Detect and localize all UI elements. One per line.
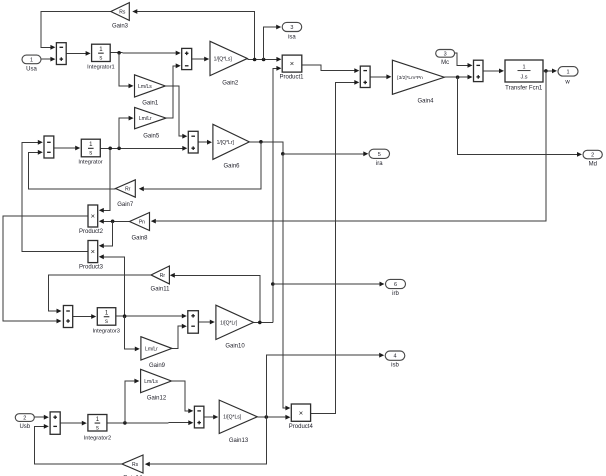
wire Sum1 to Integrator1: [66, 52, 88, 54]
gain Gain2 1/[Q*Ls]: [210, 41, 247, 75]
svg-text:×: ×: [91, 247, 95, 256]
svg-text:Pn: Pn: [139, 219, 145, 225]
wire Product4 output up to Sum5 plus: [311, 82, 357, 413]
wire Gain2 output feedback up to Gain3: [135, 12, 255, 60]
wire Sum4 to Gain6: [198, 141, 209, 143]
node Gain8 output junction: [111, 220, 115, 224]
svg-text:Usb: Usb: [19, 424, 30, 430]
outport 1 w: [558, 67, 578, 77]
wire Gain3 output to Sum1 minus: [41, 12, 111, 48]
svg-text:Product1: Product1: [279, 75, 304, 81]
wire Gain6 output to ira elbow: [249, 142, 282, 154]
svg-text:1/[Q*Lr]: 1/[Q*Lr]: [220, 320, 238, 326]
wire Gain10 output right then up (irb): [254, 321, 273, 323]
svg-text:Lm/Ls: Lm/Ls: [144, 379, 158, 385]
wire Md branch down to outport 2: [458, 77, 579, 154]
sum S5: [360, 66, 370, 87]
outport 5 ira: [369, 149, 390, 158]
wire Integrator3 riser up to Product3 input 2: [102, 257, 125, 317]
wire Gain9 output up to Sum8 minus: [172, 326, 184, 348]
svg-text:irb: irb: [392, 291, 399, 297]
wire ira down to Product4 input 1: [283, 154, 288, 408]
sum S6: [474, 60, 484, 81]
svg-text:Product2: Product2: [79, 229, 104, 235]
svg-text:Gain9: Gain9: [149, 363, 166, 369]
wire Integrator3 to Sum8 plus: [116, 315, 184, 317]
wire junction down to Product2 input 1: [102, 148, 111, 210]
svg-text:Gain13: Gain13: [229, 438, 249, 444]
gain Gain3 Rs: [111, 3, 130, 21]
gain Gain10 1/[Q*Lr]: [216, 305, 254, 339]
svg-text:isb: isb: [391, 363, 399, 369]
gain Gain12 Lm/Ls: [141, 369, 172, 392]
wire Product3 output to Sum3 upper minus: [22, 142, 88, 251]
svg-text:s: s: [99, 55, 102, 61]
wire Gain4 output to Sum6 plus: [444, 76, 469, 78]
svg-text:Integrator1: Integrator1: [87, 65, 115, 71]
svg-text:ira: ira: [376, 161, 383, 167]
svg-text:isa: isa: [288, 35, 296, 41]
svg-text:J.s: J.s: [520, 75, 527, 81]
svg-text:3: 3: [290, 25, 293, 31]
gain Gain4 [3/2]*Lm*Pn: [392, 60, 444, 94]
product Product1: [282, 55, 302, 72]
wire branch up to isa outport: [264, 27, 278, 60]
gain Gain9 Lm/Lr: [141, 337, 172, 360]
sum S3: [44, 136, 54, 158]
svg-text:Lm/Lr: Lm/Lr: [145, 346, 158, 352]
sum S7: [63, 306, 72, 328]
wire Sum10 to Gain13: [204, 416, 216, 418]
svg-text:Mc: Mc: [441, 60, 449, 66]
svg-text:w: w: [564, 80, 570, 86]
integrator Integrator2: [88, 415, 107, 432]
svg-text:Gain2: Gain2: [222, 81, 239, 87]
gain Gain13 1/[Q*Ls]: [219, 400, 257, 433]
sum S10: [194, 406, 204, 428]
wire w feedback down and left to Gain8: [154, 71, 546, 221]
wire Gain8 branch down to Product3 input 1: [102, 221, 113, 246]
gain Gain7 Rr: [116, 180, 136, 197]
wire Usa to Sum1: [41, 58, 52, 60]
wire Gain13 output to Product4 input 2: [257, 416, 287, 418]
node w output junction: [544, 69, 548, 73]
node junction to Gain3 feedback: [253, 58, 257, 62]
wire Gain1 output to Sum4 minus: [165, 86, 184, 136]
svg-text:Rr: Rr: [160, 273, 166, 279]
svg-text:×: ×: [91, 212, 95, 221]
svg-text:Transfer Fcn1: Transfer Fcn1: [505, 86, 543, 92]
wire Sum5 to Gain4: [370, 76, 388, 78]
wire junction down to Gain9 input: [125, 316, 137, 349]
wire Gain7 output to Sum3 lower minus: [29, 152, 116, 189]
wire Mc inport to Sum6 minus: [455, 53, 470, 65]
wire Gain6 feedback down to Gain7: [142, 142, 261, 189]
sum S4: [188, 131, 198, 153]
product Product4: [291, 404, 310, 421]
wire Gain5 output up to Sum2 minus: [166, 66, 178, 118]
integrator Integrator1: [92, 44, 111, 61]
svg-text:Gain12: Gain12: [147, 396, 167, 402]
wire junction up to Gain5 input: [119, 118, 131, 148]
node irb junction to outport 6: [271, 282, 275, 286]
node junction to isa port: [262, 58, 266, 62]
svg-text:Gain8: Gain8: [131, 236, 148, 242]
svg-text:5: 5: [378, 152, 381, 158]
svg-text:4: 4: [393, 354, 396, 360]
wire Integrator2 to Sum10 plus: [107, 422, 191, 424]
svg-text:s: s: [89, 151, 92, 157]
svg-text:1/[Q*Lr]: 1/[Q*Lr]: [217, 140, 235, 146]
wire Integrator to Sum4 plus: [100, 147, 184, 149]
svg-text:Md: Md: [589, 162, 597, 168]
svg-text:Gain1: Gain1: [142, 101, 159, 107]
wire Product1 output to Sum5 minus: [302, 65, 357, 71]
wire Sum2 to Gain2: [192, 58, 207, 60]
svg-text:Gain4: Gain4: [417, 99, 434, 105]
wire Gain8 output to Product2 input 2: [102, 220, 130, 222]
svg-text:1: 1: [30, 57, 33, 63]
svg-text:s: s: [105, 319, 108, 325]
svg-text:Integrator3: Integrator3: [92, 329, 120, 335]
wire Gain12 output down to Sum10 minus: [171, 381, 190, 411]
wire irb branch to outport 6: [273, 283, 381, 285]
integrator Integrator3: [97, 308, 116, 326]
node Gain13 output junction: [265, 415, 269, 419]
node Integrator3 output junction: [123, 314, 127, 318]
node Gain6 output junction: [259, 140, 263, 144]
wire Gain10 feedback up to Gain11: [173, 275, 260, 322]
outport 4 isb: [385, 351, 405, 360]
sum S1: [56, 43, 66, 65]
sum S2: [182, 48, 192, 69]
svg-text:Product4: Product4: [289, 424, 314, 430]
wire Sum9 to Integrator2: [60, 422, 84, 424]
outport 2 Md: [583, 150, 602, 159]
node Integrator junction to Product2: [108, 147, 112, 151]
transfer fcn Transfer Fcn1: [505, 60, 543, 82]
node Gain4 output junction: [456, 75, 460, 79]
svg-text:Gain6: Gain6: [223, 164, 240, 170]
svg-text:s: s: [96, 425, 99, 431]
product Product2: [88, 205, 98, 227]
gain Gain14 Rs bottom: [122, 455, 143, 473]
outport 6 irb: [386, 279, 406, 288]
svg-text:6: 6: [394, 282, 397, 288]
svg-text:[3/2]*Lm*Pn: [3/2]*Lm*Pn: [397, 75, 423, 81]
svg-text:Gain3: Gain3: [112, 24, 129, 30]
svg-text:2: 2: [23, 416, 26, 422]
wire Usb to Sum9 plus: [34, 416, 46, 418]
outport 3 isa: [282, 22, 302, 31]
inport 3 Mc: [436, 50, 455, 58]
gain Gain11 Rr: [151, 266, 169, 284]
sum S8: [188, 311, 199, 334]
svg-text:×: ×: [290, 59, 294, 68]
wire bottom Rs output to Sum9 minus: [34, 426, 122, 464]
svg-text:Gain5: Gain5: [143, 134, 160, 140]
wire Transfer Fcn1 to outport w: [543, 70, 554, 72]
wire irb up to Product1 input 2: [273, 68, 279, 322]
svg-text:×: ×: [299, 408, 303, 417]
svg-text:Rs: Rs: [119, 9, 126, 15]
wire Sum7 to Integrator3: [73, 316, 94, 318]
node Integrator junction to Gain5: [117, 147, 121, 151]
inport 1 Usa: [22, 55, 41, 64]
wire Product2 output to Sum7 plus: [3, 216, 88, 321]
gain Gain8 Pn: [130, 213, 150, 231]
product Product3: [88, 241, 98, 263]
svg-text:Lm/Lr: Lm/Lr: [139, 116, 152, 122]
wire Integrator1 to Sum2 plus: [110, 52, 178, 54]
node Integrator2 output junction: [123, 421, 127, 425]
sum S9: [50, 412, 60, 434]
svg-text:Product3: Product3: [79, 265, 104, 271]
wire Integrator1 junction down to Gain1: [119, 53, 131, 86]
wire Sum3 to Integrator: [54, 147, 78, 149]
svg-text:1: 1: [566, 69, 569, 75]
gain Gain1 Lm/Ls: [135, 75, 166, 97]
svg-text:Integrator2: Integrator2: [84, 436, 112, 442]
svg-text:Lm/Ls: Lm/Ls: [138, 84, 152, 90]
wire Sum6 to Transfer Fcn1: [483, 70, 501, 72]
svg-text:1: 1: [522, 65, 525, 71]
gain Gain5 Lm/Lr: [135, 107, 166, 128]
wire junction up to Gain12 input: [125, 381, 137, 423]
svg-text:Integrator: Integrator: [78, 160, 102, 166]
wire Gain2 output to Product1 input 1: [247, 58, 279, 60]
wire Sum8 to Gain10: [198, 321, 212, 323]
wire Gain13 feedback down to bottom Rs gain: [148, 417, 267, 464]
wire Gain11 output to Sum7 minus: [48, 275, 151, 311]
node ira junction: [281, 152, 285, 156]
svg-text:Gain7: Gain7: [117, 202, 134, 208]
integrator Integrator: [81, 139, 100, 157]
wire isb branch up to outport 4: [266, 355, 381, 417]
wire ira to outport 5: [283, 153, 366, 155]
gain Gain6 1/[Q*Lr]: [213, 124, 249, 159]
node Gain10 output junction: [258, 321, 262, 325]
svg-text:3: 3: [444, 51, 447, 57]
svg-text:2: 2: [591, 153, 594, 159]
svg-text:Usa: Usa: [26, 67, 37, 73]
inport 2 Usb: [15, 414, 34, 422]
node Integrator1 output junction: [117, 51, 121, 55]
svg-text:1/[Q*Ls]: 1/[Q*Ls]: [214, 56, 233, 62]
svg-text:Gain10: Gain10: [225, 344, 245, 350]
svg-text:Rr: Rr: [125, 186, 131, 192]
svg-text:1/[Q*Ls]: 1/[Q*Ls]: [223, 415, 242, 421]
svg-text:Rs: Rs: [132, 462, 139, 468]
svg-text:Gain11: Gain11: [151, 287, 171, 293]
